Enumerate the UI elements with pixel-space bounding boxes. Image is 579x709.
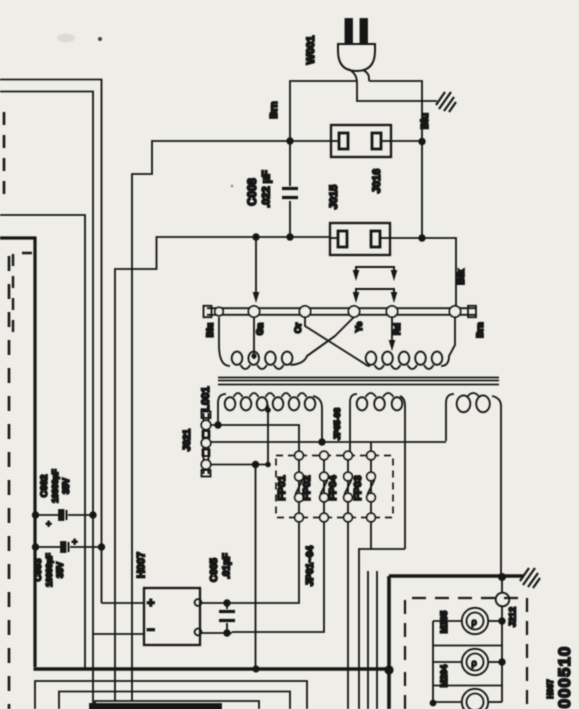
svg-text:Blu: Blu [420,113,431,129]
wire FP01 bottom to rectifier top wire [236,522,299,603]
svg-text:W001: W001 [305,36,317,65]
fuse link FP03 [370,459,372,473]
svg-text:ρ: ρ [472,617,477,627]
svg-text:35V: 35V [61,478,71,494]
arrow onto Gn terminal [252,233,259,240]
wire J021-2 long feed to secondary C [210,441,446,443]
jumper arrow link 2 [356,289,394,299]
terminal Rd [386,306,397,317]
plug W001 prongs [346,19,353,44]
svg-text:−: − [147,622,155,637]
svg-text:FP01: FP01 [276,475,288,500]
svg-text:FP03: FP03 [352,475,364,500]
fuse link FP04 [347,459,349,473]
wire 2: stepped wire to J015 lower [115,237,330,701]
dashed block boundary left long [8,256,11,709]
svg-text:JP01~04: JP01~04 [305,545,316,586]
svg-text:C003: C003 [33,559,44,582]
connector J021 [204,413,209,474]
block C thick border [0,238,35,667]
svg-text:.01µF: .01µF [222,553,233,579]
dashed motor box [405,598,527,709]
connector J016 (lower receptacle) [330,223,390,255]
block A double border top-left [0,80,102,709]
Gn tap lead [253,317,255,359]
motor block wiring [433,620,462,622]
wire: J015 right to bus [391,140,422,142]
wire: plug right conductor down right bus (Blu) [369,81,422,238]
lamp M204 [462,649,488,675]
svg-text:.022 µF: .022 µF [261,170,273,208]
ground (mains earth) [436,92,456,112]
capacitor C008 [289,141,291,237]
svg-text:H007: H007 [136,552,148,578]
wire J021-3 to tap and bus drop [210,464,268,466]
svg-text:J021: J021 [182,428,193,451]
terminal Gn [248,306,259,317]
Rd tap lead with arrow [391,317,393,342]
svg-text:Gn: Gn [255,323,265,336]
svg-text:+: + [46,519,51,529]
crossed leads Or/Ye [305,317,365,364]
secondary A tap [267,405,269,465]
svg-text:10000µF: 10000µF [44,553,54,587]
L001 primary left winding [219,317,230,366]
capacitor C003 [35,546,102,548]
wire: plug left conductor to C008 node (Brn) [290,81,357,141]
svg-text:+: + [72,537,77,547]
L001 secondary C [446,394,454,441]
svg-text:35V: 35V [55,562,65,578]
L001 secondary B [350,394,357,455]
svg-text:C008: C008 [247,178,259,206]
svg-text:+: + [147,595,155,610]
svg-text:Brn: Brn [269,101,280,118]
svg-text:M205: M205 [439,611,449,634]
wire FP02 bottom to rectifier bottom wire [232,522,324,632]
wire C002 node line to rectifier - [93,633,144,635]
dashed block boundary left edge [3,112,6,194]
fuse link FP01 [298,459,300,473]
inner dashed box corner [13,253,32,332]
fuse link FP02 [323,459,325,473]
block D inner border [59,692,290,709]
plug W001 body [338,44,375,71]
lamp M203 (partial) [462,689,488,709]
L001 core [218,378,499,385]
block D inner component top [95,701,259,709]
terminal Blu [215,307,223,315]
L001 primary right winding [366,352,377,365]
svg-text:Blu: Blu [205,323,215,338]
lamp M205 [462,608,488,634]
wire rectifier AC top [202,602,236,604]
wire J021-1 to secondary A left and FP01 top [210,425,299,455]
svg-text:FP02: FP02 [301,475,313,500]
terminal Brn [449,306,460,317]
dashed box JP01-08 [276,456,393,518]
svg-text:L001: L001 [200,386,212,411]
scan specks [98,37,102,41]
svg-text:J016: J016 [371,169,383,193]
wire from y549 corner down [359,549,405,709]
bridge rectifier H007 [144,588,200,645]
svg-text:M204: M204 [439,665,449,688]
terminal strip bar [207,308,476,315]
svg-text:Ye: Ye [354,322,364,333]
block D outer border [35,681,307,709]
plug cord [348,69,437,101]
svg-text:ρ: ρ [472,658,477,668]
wire C003 node down to rectifier + [102,602,145,604]
connector J015 (upper receptacle) [331,125,391,157]
wire FP04 bottom down [347,522,349,709]
svg-text:H007: H007 [546,679,555,699]
svg-text:Blk: Blk [456,269,467,285]
svg-text:Or: Or [293,322,303,333]
svg-text:10000µF: 10000µF [50,469,60,503]
wire 1: stepped wire to J015 upper [132,141,331,701]
svg-text:J015: J015 [328,185,340,209]
capacitor C005 [226,603,228,633]
chassis ground right [520,568,540,588]
capacitor C002 [35,514,93,516]
ground bus [34,576,525,709]
L001 secondary A [218,394,226,425]
svg-text:J212: J212 [508,607,518,627]
terminal Or [299,306,310,317]
svg-text:FP04: FP04 [327,475,339,500]
svg-text:Rd: Rd [392,323,402,335]
svg-text:Brn: Brn [475,322,485,338]
wire secondary B left to FP04 top [370,442,372,452]
svg-text:JP05-08: JP05-08 [332,408,342,440]
jumper arrow link 1 [356,267,394,277]
long drop wires [367,571,369,709]
terminal Ye [348,306,359,317]
block B thin border [0,215,85,668]
wire: J016 right to bus and Blk drop [390,238,456,306]
connector pin J212 [501,577,503,593]
svg-text:C005: C005 [209,558,220,582]
svg-text:C002: C002 [39,475,50,498]
wire rectifier AC bottom [202,632,232,634]
svg-text:000510: 000510 [555,646,574,709]
